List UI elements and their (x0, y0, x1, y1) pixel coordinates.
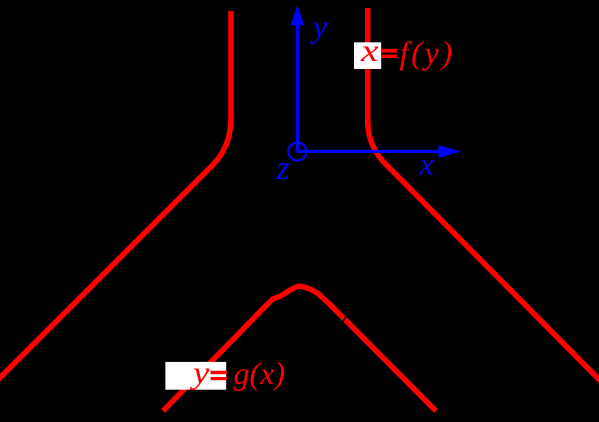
svg-text:x: x (360, 32, 379, 68)
svg-text:g(x): g(x) (234, 355, 286, 391)
x-axis (blue) (297, 150, 440, 153)
x-axis arrowhead (439, 145, 462, 158)
curve x=f(y) right branch (red) (368, 8, 599, 386)
origin circle z-axis out of page (blue) (288, 143, 306, 161)
equals sign of x=f(y) (red bars) (381, 49, 397, 53)
svg-text:x: x (419, 146, 434, 182)
label box x of x=f(y) (white) (354, 42, 381, 69)
equals sign of y=g(x) (red bars) (211, 371, 227, 375)
svg-text:f(y): f(y) (400, 35, 456, 71)
y-axis (blue) (296, 24, 299, 153)
svg-text:z: z (276, 150, 290, 187)
curve left branch (red) (0, 11, 231, 384)
gap notch on tent right branch (342, 317, 347, 325)
curve y=g(x) tent (red) (163, 286, 436, 411)
svg-text:y: y (310, 8, 328, 44)
label box y=g(x) (white) (165, 362, 226, 390)
svg-text:y: y (190, 354, 211, 390)
y-axis arrowhead (291, 5, 304, 25)
